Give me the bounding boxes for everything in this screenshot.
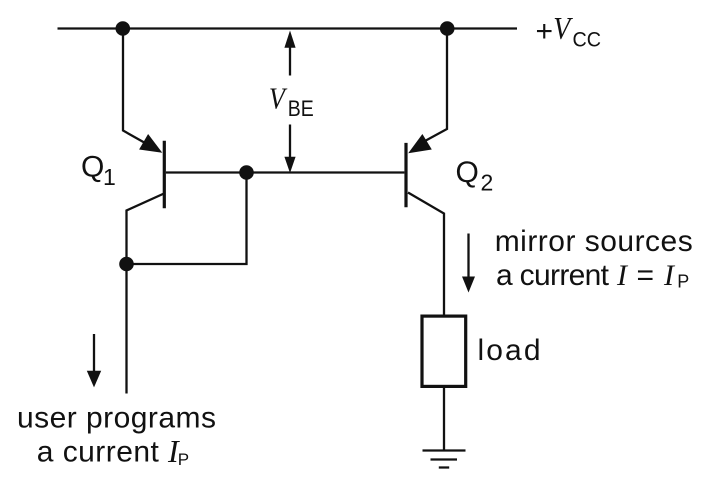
svg-text:P: P bbox=[178, 450, 189, 469]
svg-text:1: 1 bbox=[103, 164, 116, 190]
svg-text:P: P bbox=[677, 272, 689, 292]
svg-text:CC: CC bbox=[573, 28, 602, 51]
svg-text:I: I bbox=[663, 259, 676, 292]
svg-text:V: V bbox=[553, 10, 573, 46]
svg-text:user programs: user programs bbox=[17, 402, 216, 435]
svg-text:a current: a current bbox=[37, 436, 160, 469]
svg-text:Q: Q bbox=[456, 156, 479, 189]
svg-text:I: I bbox=[616, 259, 629, 292]
svg-text:Q: Q bbox=[81, 151, 104, 184]
svg-text:mirror sources: mirror sources bbox=[495, 225, 693, 258]
svg-text:a current: a current bbox=[496, 259, 610, 292]
svg-text:2: 2 bbox=[481, 169, 494, 195]
svg-text:+: + bbox=[536, 15, 554, 48]
svg-text:=: = bbox=[637, 259, 655, 292]
svg-text:V: V bbox=[269, 81, 288, 116]
svg-text:BE: BE bbox=[288, 96, 314, 121]
svg-text:load: load bbox=[478, 334, 541, 367]
